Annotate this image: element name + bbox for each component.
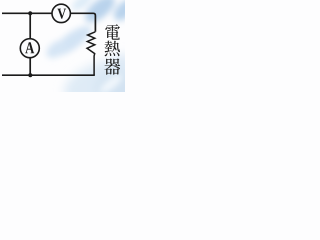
label char 熱 (heat) (105, 41, 120, 57)
voltmeter label V (57, 9, 66, 19)
wire bottom (2, 74, 95, 76)
junction dot top (28, 11, 32, 15)
resistor (electric heater) zigzag (87, 32, 95, 75)
voltmeter U1 circle (52, 4, 70, 22)
wire ammeter-to-bottom (29, 58, 31, 76)
ammeter label A (25, 42, 34, 53)
junction dot bottom (28, 73, 32, 77)
label char 電 (electric) (105, 24, 120, 40)
ammeter U2 circle (20, 39, 39, 58)
wire top-right segment (70, 13, 95, 32)
label char 器 (device) (104, 58, 120, 74)
wire branch junction-to-ammeter (29, 13, 31, 39)
wire top-left segment (2, 12, 52, 14)
